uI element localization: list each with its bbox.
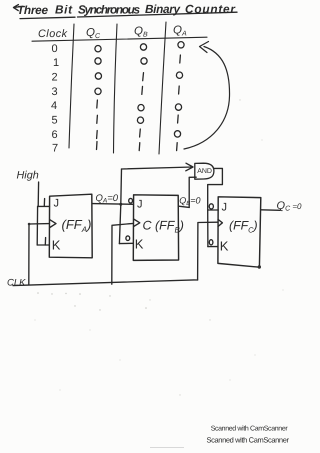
- svg-text:K: K: [52, 238, 61, 253]
- wire J-K tie vertical (FFA): [36, 206, 38, 245]
- svg-text:K: K: [220, 239, 229, 254]
- table column line 1: [69, 24, 74, 148]
- svg-text:2: 2: [52, 72, 58, 84]
- junction dot QA branch: [119, 203, 122, 206]
- label QB=0: [179, 196, 200, 208]
- value 1 at J of FFA: [43, 199, 45, 207]
- feedback arrow from QA row7 to QA row0: [184, 47, 230, 150]
- faint smudge dots row: [37, 292, 147, 310]
- svg-text:J: J: [222, 202, 228, 214]
- value 0 at J of FFC: [209, 204, 213, 209]
- svg-text:QC =0: QC =0: [277, 200, 303, 213]
- table column line 3: [159, 22, 166, 154]
- svg-text:Bit: Bit: [55, 3, 73, 17]
- svg-text:AND: AND: [197, 168, 212, 175]
- wire QA output from FFA to FFB J: [92, 203, 133, 206]
- wire K input of FFA: [37, 244, 49, 246]
- pin K label FFC: [220, 239, 229, 254]
- node High label: [17, 169, 39, 181]
- QA column values 0 1 0 1 0 1 0 1: [174, 42, 184, 151]
- svg-text:6: 6: [52, 129, 58, 141]
- svg-text:Scanned with CamScanner: Scanned with CamScanner: [207, 435, 290, 444]
- value 0 at K of FFB: [126, 236, 130, 241]
- wire J input of FFA: [38, 205, 50, 207]
- wire clock to FFC: [198, 222, 218, 280]
- faint bottom-left artifact line: [150, 447, 184, 449]
- QB column values 0 0 1 1 0 0 1 1: [137, 44, 147, 151]
- svg-text:7: 7: [52, 143, 58, 155]
- svg-text:4: 4: [51, 100, 57, 112]
- wire CLK bus: [13, 280, 198, 286]
- label (FFA): [62, 217, 92, 234]
- table column line 2: [114, 24, 118, 153]
- label AND: [197, 168, 212, 175]
- clock triangle FFB: [134, 219, 140, 227]
- svg-text:High: High: [17, 169, 39, 181]
- wire clock to FFB: [112, 223, 134, 284]
- title arrow tick: [14, 5, 24, 11]
- value 0 at K of FFC: [209, 240, 213, 245]
- clock triangle FFC: [218, 219, 222, 226]
- pin J label FFC: [222, 202, 228, 214]
- wire QB output from FFB: [179, 206, 190, 207]
- flip-flop FFA box: [49, 194, 92, 258]
- pin J label FFB: [137, 199, 143, 211]
- paper speckles: [34, 99, 283, 395]
- wire AND output down to FFC J: [208, 168, 223, 210]
- value 1 at K of FFA: [44, 238, 46, 246]
- label C (FFB): [143, 219, 184, 235]
- pin K label FFB: [135, 236, 144, 251]
- svg-text:5: 5: [52, 115, 58, 127]
- clock triangle FFA: [50, 220, 56, 228]
- wire J-K tie vertical (FFB): [119, 204, 120, 243]
- flip-flop FFB box: [133, 195, 178, 261]
- clock column digits 0-7: [51, 43, 59, 155]
- table header: Clock Qc QB QA: [38, 25, 187, 41]
- svg-text:3: 3: [52, 86, 58, 98]
- svg-text:Synchronous: Synchronous: [78, 2, 140, 16]
- wire K input of FFC: [208, 246, 218, 248]
- table header underline: [32, 37, 207, 41]
- svg-text:Three: Three: [17, 3, 48, 17]
- svg-text:(FFC): (FFC): [229, 219, 258, 235]
- wire QB branch up to AND gate input: [189, 177, 196, 207]
- svg-text:CLK: CLK: [7, 277, 26, 288]
- wire top bus to AND gate input with arrowhead: [122, 167, 193, 169]
- title text "Three Bit Synchronous Binary Counter": [17, 2, 236, 17]
- wire K input of FFB: [119, 242, 133, 244]
- label CLK: [7, 277, 26, 288]
- svg-text:Clock: Clock: [38, 28, 68, 40]
- pin K label FFA: [52, 238, 61, 253]
- svg-text:1: 1: [53, 57, 59, 69]
- label (FFC): [229, 219, 258, 235]
- svg-text:0: 0: [52, 43, 58, 55]
- label QC=0: [277, 200, 303, 213]
- wire J-K tie vertical (FFC): [207, 210, 209, 247]
- ink blob at FFC corner: [258, 265, 261, 268]
- wire clock to FFA: [29, 224, 50, 285]
- svg-text:K: K: [135, 236, 144, 251]
- svg-text:J: J: [137, 199, 143, 211]
- Qc column values 0 0 0 0 1 1 1 1: [95, 46, 102, 150]
- wire High down to J input: [37, 182, 39, 206]
- title underline: [20, 12, 237, 18]
- junction dot clock FFA: [28, 223, 31, 226]
- svg-text:(FFA): (FFA): [62, 217, 92, 234]
- AND gate U1: [195, 163, 214, 179]
- wire QC output: [261, 209, 280, 212]
- wire QA branch up to top bus: [120, 169, 123, 204]
- value 0 at J of FFB: [129, 198, 133, 203]
- svg-text:J: J: [54, 198, 60, 210]
- svg-text:QA=0: QA=0: [96, 193, 119, 205]
- svg-text:Scanned with CamScanner: Scanned with CamScanner: [211, 424, 289, 432]
- label QA=0: [96, 193, 119, 205]
- pin J label FFA: [54, 198, 60, 210]
- flip-flop FFC box: [218, 197, 261, 267]
